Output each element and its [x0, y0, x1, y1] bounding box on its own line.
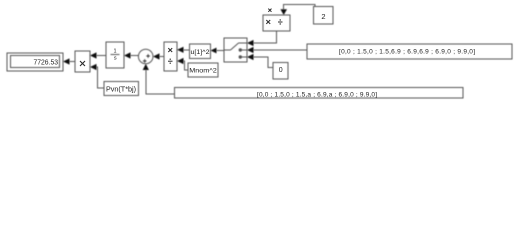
- switch icon lines: [224, 43, 247, 57]
- sum block circle: [138, 49, 153, 64]
- svg-text:0: 0: [279, 67, 283, 74]
- switch icon dot middle: [239, 49, 241, 51]
- svg-text:Mnom^2: Mnom^2: [189, 68, 217, 75]
- arrowhead into top divide: [280, 9, 287, 15]
- constant block 2: [314, 7, 334, 24]
- divide vertical times sign: [168, 48, 172, 52]
- Pvn(T*bj) function block: [104, 82, 139, 96]
- display block Display outer: [7, 53, 63, 71]
- wire divide out to sum right input: [160, 56, 165, 58]
- arrowhead switch input 1: [247, 40, 254, 46]
- svg-text:Pvn(T*bj): Pvn(T*bj): [106, 86, 136, 93]
- arrowhead u[1]^2 input: [211, 48, 217, 54]
- svg-text:[0,0 ; 1.5,0 ; 1.5,a ; 6.9,a ;: [0,0 ; 1.5,0 ; 1.5,a ; 6.9,a ; 6.9,0 ; 9…: [257, 91, 377, 98]
- Mnom^2 constant block: [188, 63, 218, 77]
- lookup table block right: [307, 44, 512, 59]
- wire constant 2 to top divide: [284, 5, 315, 10]
- arrowhead product top input: [90, 52, 97, 58]
- wire display to product: [70, 61, 76, 63]
- divide vertical divide sign: [168, 59, 173, 64]
- arrowhead integrator input: [124, 52, 131, 58]
- divide block horizontal top: [263, 15, 290, 31]
- wire integrator out to product top input: [97, 55, 107, 57]
- divide block vertical: [164, 42, 177, 71]
- sum plus sign bottom: [143, 59, 147, 63]
- lookup table block bottom: [175, 88, 464, 99]
- arrowhead switch input 2: [247, 47, 254, 53]
- product block X: [75, 51, 90, 72]
- wire sum out to integrator: [131, 55, 139, 57]
- wire lookup table to switch input 2: [254, 49, 308, 51]
- integrator fraction bar: [111, 54, 120, 56]
- arrowhead sum bottom input: [143, 64, 149, 70]
- integrator block 1/s: [106, 42, 124, 68]
- switch icon dot bottom: [239, 56, 241, 58]
- u[1]^2 math function block: [190, 44, 211, 59]
- wire bottom lookup to sum bottom input: [146, 70, 175, 94]
- wire switch out to u[1]^2 input: [217, 50, 225, 52]
- display block inner window: [11, 56, 60, 68]
- wire product bottom input from Pvn: [97, 67, 105, 88]
- wire zero constant to switch input 3: [254, 57, 274, 68]
- arrowhead product bottom input: [90, 64, 97, 70]
- svg-text:[0,0 ; 1.5,0 ; 1.5,6.9 ; 6.9,6: [0,0 ; 1.5,0 ; 1.5,6.9 ; 6.9,6.9 ; 6.9,0…: [339, 48, 475, 55]
- switch block: [224, 38, 247, 62]
- arrowhead switch input 3: [247, 54, 254, 60]
- top divide divide sign: [278, 19, 283, 24]
- svg-text:7726.53: 7726.53: [34, 57, 59, 66]
- wire u[1]^2 out to divide top input: [184, 49, 190, 51]
- svg-text:s: s: [114, 55, 117, 61]
- arrowhead divide bottom input: [177, 58, 184, 64]
- port sign times above top divide: [268, 9, 271, 12]
- constant block 0: [273, 63, 288, 80]
- wire Mnom^2 out to divide bottom input: [184, 61, 189, 70]
- top divide times sign: [266, 20, 270, 24]
- product X sign: [80, 61, 85, 66]
- svg-text:1: 1: [113, 48, 116, 54]
- arrowhead into display: [63, 58, 70, 64]
- svg-text:2: 2: [321, 12, 325, 21]
- svg-text:u[1]^2: u[1]^2: [191, 49, 210, 56]
- arrowhead divide top input: [177, 47, 184, 53]
- sum plus sign right: [146, 54, 150, 58]
- wire top divide down to switch input 1: [254, 31, 277, 43]
- arrowhead sum right input: [153, 53, 160, 59]
